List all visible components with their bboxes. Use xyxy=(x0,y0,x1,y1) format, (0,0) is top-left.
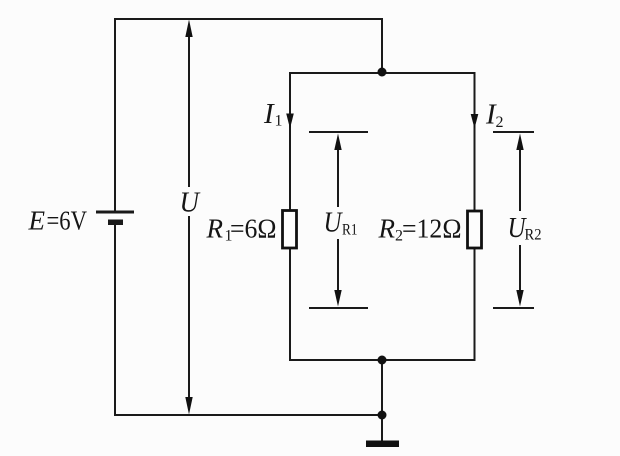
svg-text:=6Ω: =6Ω xyxy=(230,214,277,244)
svg-text:I: I xyxy=(263,98,275,130)
svg-text:1: 1 xyxy=(275,113,283,130)
svg-text:U: U xyxy=(324,206,344,238)
svg-text:2: 2 xyxy=(496,114,504,131)
svg-text:R: R xyxy=(378,214,396,244)
svg-text:E: E xyxy=(28,206,46,236)
svg-text:U: U xyxy=(180,186,201,218)
svg-text:=6V: =6V xyxy=(47,206,88,236)
svg-text:=12Ω: =12Ω xyxy=(402,214,462,244)
svg-text:R2: R2 xyxy=(525,227,542,244)
svg-text:R: R xyxy=(206,214,224,244)
svg-text:R1: R1 xyxy=(342,222,358,239)
